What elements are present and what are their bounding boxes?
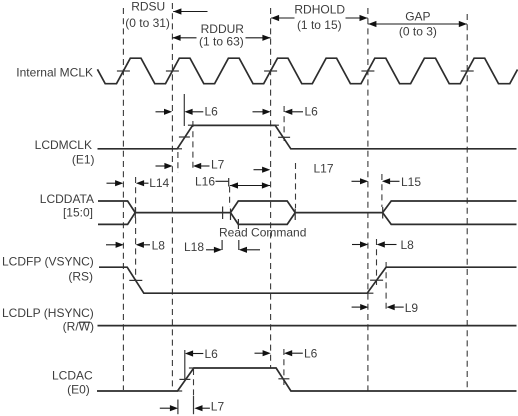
L7 dimension (LCDAC): [160, 407, 170, 409]
svg-text:L9: L9: [405, 301, 419, 315]
LCDDATA left bus top: [98, 201, 135, 213]
svg-text:(0 to 31): (0 to 31): [125, 16, 170, 30]
LCDMCLK fall mid tick: [278, 136, 290, 138]
tick on center line at L18 left ref: [222, 207, 224, 220]
solid ref at LCDAC rise mid: [184, 350, 186, 380]
svg-text:(RS): (RS): [68, 269, 93, 283]
L8 dimension (left): [106, 244, 120, 246]
MCLK crossing tick at line 3: [264, 70, 277, 72]
svg-text:(0 to 3): (0 to 3): [399, 25, 437, 39]
svg-text:L17: L17: [314, 161, 334, 175]
LCDDATA right bus bottom: [383, 213, 517, 225]
Internal MCLK clock waveform: [97, 58, 517, 83]
svg-text:(1 to 63): (1 to 63): [199, 35, 244, 49]
svg-text:L7: L7: [211, 400, 225, 414]
L15 dimension: [352, 180, 365, 182]
svg-text:L16: L16: [195, 175, 215, 189]
svg-text:L8: L8: [401, 238, 415, 252]
LCDDATA right bus top: [383, 201, 517, 213]
short dashed ref below LCDAC low corner: [177, 400, 179, 415]
dashed ref above hexagon right point: [295, 163, 297, 208]
MCLK crossing tick at line 1: [117, 70, 130, 72]
svg-text:Read Command: Read Command: [219, 225, 306, 239]
solid ref line at LCDMCLK rise mid: [183, 94, 185, 126]
svg-text:L8: L8: [152, 238, 166, 252]
LCDAC waveform: [97, 368, 517, 391]
LCDMCLK rise top-corner tick: [188, 124, 198, 126]
svg-text:RDSU: RDSU: [131, 0, 165, 14]
tick at hexagon bottom-left corner: [237, 219, 239, 229]
MCLK crossing tick at line 4: [361, 70, 374, 72]
LCDDATA center line 2: [295, 212, 382, 214]
LCDAC rise low-corner tick: [173, 390, 182, 392]
svg-text:LCDAC: LCDAC: [52, 368, 93, 382]
svg-text:Internal MCLK: Internal MCLK: [16, 65, 93, 79]
svg-text:(1 to 15): (1 to 15): [297, 18, 342, 32]
tick at hexagon right point: [294, 209, 296, 221]
dashed ref at LCDDATA right X: [381, 174, 383, 207]
LCDFP rise mid tick: [370, 279, 383, 281]
LCDDATA hexagon Read Command: [231, 201, 296, 224]
svg-text:LCDFP (VSYNC): LCDFP (VSYNC): [2, 255, 94, 269]
LCDMCLK waveform: [98, 125, 517, 148]
dashed ref at LCDFP rise top corner: [385, 262, 387, 311]
dashed ref at LCDFP rise mid: [376, 239, 378, 285]
LCDLP waveform: [98, 325, 517, 327]
short dashed ref at LCDDATA X1 / LCDFP mid-edge: [135, 177, 137, 281]
main dashed reference line 4: [367, 8, 369, 391]
L14 dimension: [107, 182, 120, 184]
tick at LCDDATA right X point: [382, 207, 384, 219]
LCDFP fall mid tick: [129, 279, 142, 281]
overline on W: [79, 321, 90, 323]
main dashed reference line 2: [171, 3, 173, 391]
LCDAC rise top-corner tick: [189, 367, 199, 369]
LCDFP rise low-corner tick: [361, 292, 373, 294]
svg-text:(E1): (E1): [72, 152, 95, 166]
MCLK crossing tick at line 2: [166, 70, 179, 72]
svg-text:L6: L6: [205, 104, 219, 118]
LCDFP waveform: [99, 267, 517, 293]
short dashed ref at LCDMCLK rise low corner: [177, 152, 179, 173]
L6 dimension (LCDAC fall): [255, 352, 267, 354]
svg-text:RDHOLD: RDHOLD: [294, 3, 345, 17]
svg-text:LCDMCLK: LCDMCLK: [35, 138, 92, 152]
LCDDATA center line 1: [135, 212, 230, 214]
L6 dimension (LCDMCLK fall): [253, 111, 267, 113]
tick at hexagon left point: [230, 209, 232, 221]
svg-text:(E0): (E0): [67, 383, 90, 397]
L9 dimension: [352, 306, 365, 308]
main dashed reference line 1: [122, 8, 124, 390]
L6 dimension (LCDMCLK rise): [156, 111, 169, 113]
svg-text:LCDDATA: LCDDATA: [40, 192, 94, 206]
LCDMCLK rise mid tick: [179, 136, 190, 138]
dashed ref from LCDMCLK rise top corner: [192, 121, 194, 170]
L17 dimension: [254, 169, 268, 171]
svg-text:L15: L15: [401, 175, 421, 189]
dashed ref at LCDMCLK fall mid: [283, 106, 285, 141]
svg-text:[15:0]: [15:0]: [63, 205, 93, 219]
main dashed reference line 3: [270, 8, 272, 368]
svg-text:L6: L6: [304, 347, 318, 361]
svg-text:L6: L6: [205, 347, 219, 361]
dashed ref above hexagon left point: [229, 187, 231, 208]
LCDDATA left bus bottom: [98, 213, 135, 225]
svg-text:LCDLP (HSYNC): LCDLP (HSYNC): [2, 306, 94, 320]
svg-text:L6: L6: [305, 104, 319, 118]
LCDAC rise mid tick: [179, 378, 190, 380]
svg-text:L18: L18: [184, 240, 204, 254]
svg-text:L7: L7: [211, 157, 225, 171]
dashed ref at LCDAC rise top corner: [193, 369, 195, 396]
LCDMCLK fall top-corner tick: [272, 124, 279, 126]
LCDAC fall mid tick: [278, 378, 289, 380]
tick at LCDDATA left X point: [134, 207, 136, 218]
dashed ref at LCDAC fall mid: [283, 349, 285, 385]
L6 dimension (LCDAC rise): [185, 350, 193, 356]
svg-text:L14: L14: [149, 176, 169, 190]
main dashed reference line 5: [466, 14, 468, 391]
L7 dimension (LCDMCLK): [156, 165, 169, 167]
MCLK crossing tick at line 5: [461, 70, 474, 72]
svg-text:GAP: GAP: [405, 10, 430, 24]
LCDMCLK rise low-corner tick: [173, 148, 182, 150]
L8 dimension (right): [352, 244, 365, 246]
